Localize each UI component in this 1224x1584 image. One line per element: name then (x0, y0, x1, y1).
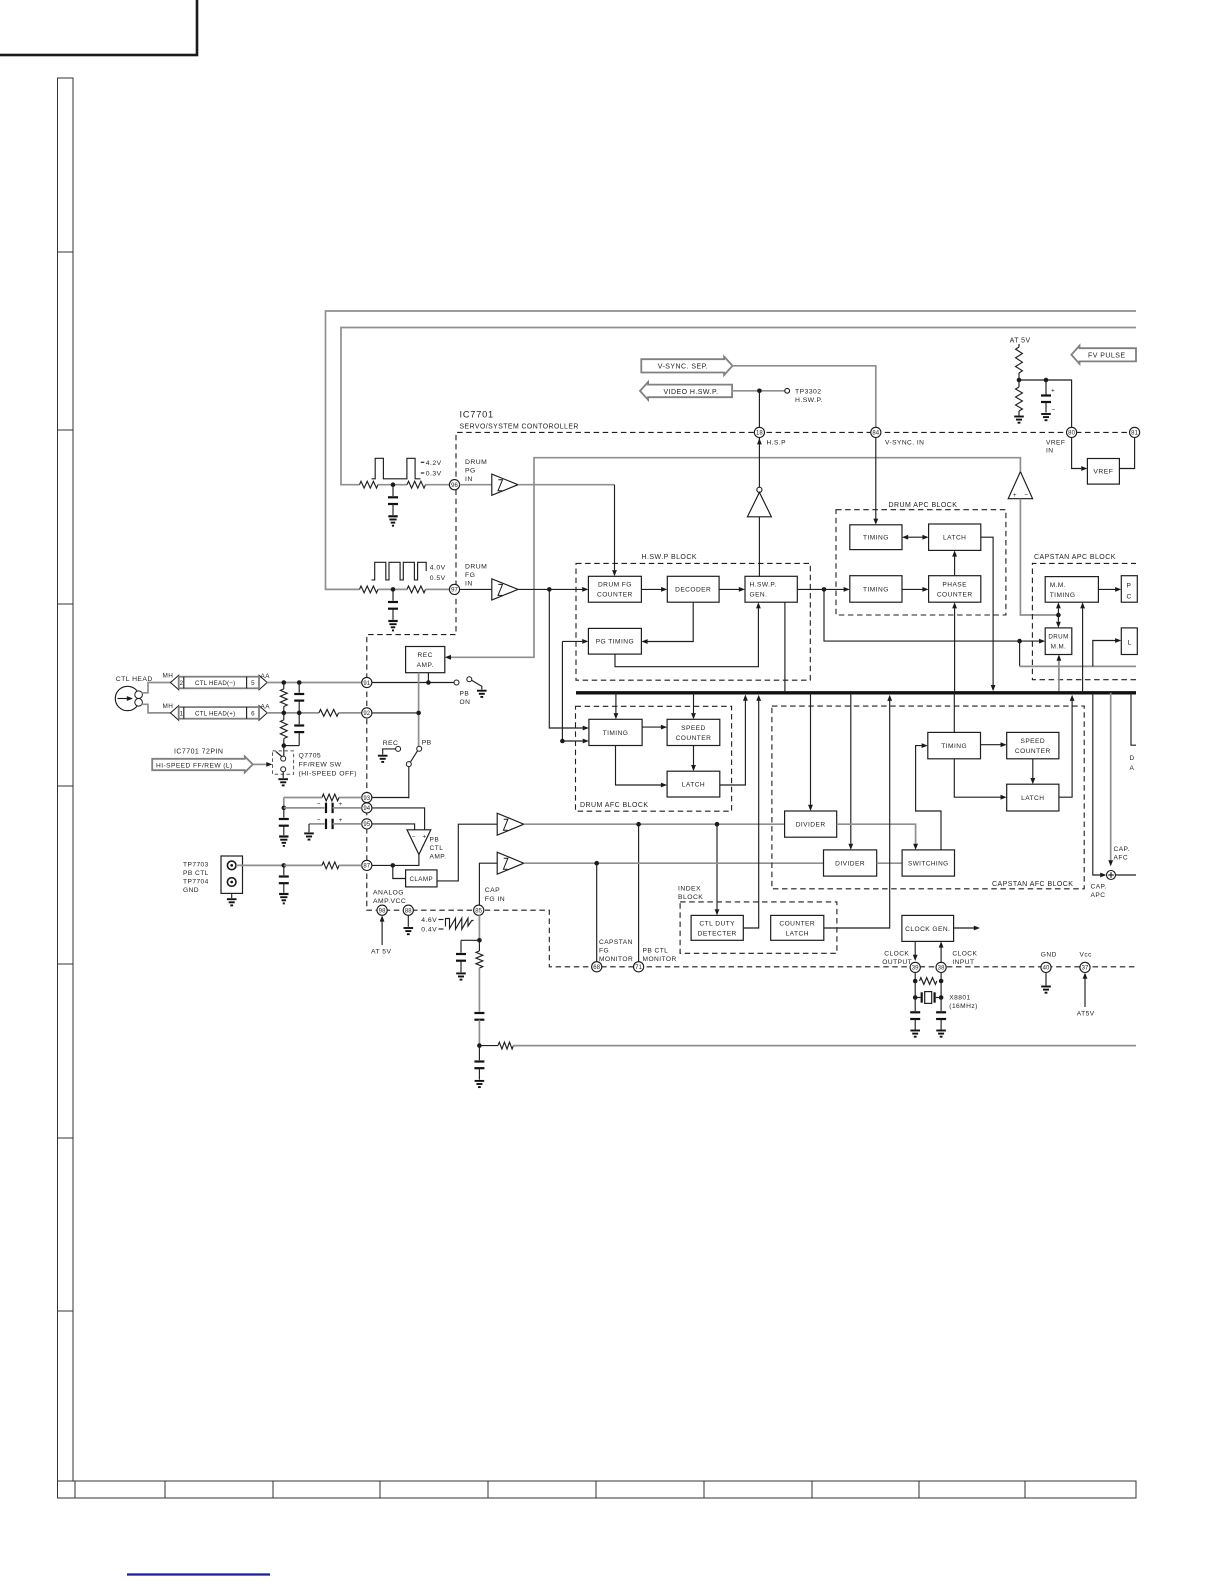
resistor below pin 85 (478, 940, 480, 951)
capacitor (electrolytic) at VREF IN (1045, 380, 1047, 395)
title block corner (top-left filled frame) (0, 0, 197, 55)
wire junction down to lower distribution line (1019, 641, 1021, 666)
ground under Q7705 (278, 778, 288, 780)
wire summing node output to right edge (1116, 874, 1137, 876)
svg-text:(HI-SPEED OFF): (HI-SPEED OFF) (299, 771, 357, 778)
pin 92 CTL HEAD(+) (362, 708, 372, 718)
svg-text:TIMING: TIMING (941, 743, 967, 750)
wire tap down to pin 68 (596, 863, 598, 962)
ground TP7704 (227, 898, 237, 900)
resistor to long wire (498, 1042, 513, 1049)
wire buffer out to DRUM FG COUNTER top (518, 484, 615, 486)
svg-text:0.4V: 0.4V (421, 926, 437, 933)
svg-text:+: + (423, 833, 427, 840)
svg-text:REC: REC (383, 740, 399, 747)
svg-text:CAP: CAP (485, 887, 500, 894)
svg-text:SPEED: SPEED (1020, 738, 1045, 745)
test point TP7703 circle (227, 861, 236, 870)
resistor R(top) at AT 5V (1018, 344, 1020, 347)
svg-text:(16MHz): (16MHz) (949, 1003, 977, 1010)
wire TIMING bottom to LATCH (capstan) (954, 759, 1001, 797)
svg-text:AFC: AFC (1114, 855, 1129, 862)
resistor R at drum FG in (left) (360, 586, 379, 593)
wire to pin 96 (426, 484, 450, 486)
svg-text:CAP.: CAP. (1114, 846, 1130, 853)
wire pin 94 to PB CTL AMP + (372, 808, 425, 830)
svg-text:2: 2 (180, 680, 184, 687)
capacitor under pin39 leg (914, 998, 916, 1012)
svg-text:MONITOR: MONITOR (599, 956, 633, 963)
svg-text:+: + (1013, 492, 1017, 499)
svg-text:CTL DUTY: CTL DUTY (699, 920, 735, 927)
op-amp PB CTL AMP (points down) (407, 830, 431, 855)
svg-text:84: 84 (872, 431, 879, 437)
svg-text:VIDEO H.SW.P.: VIDEO H.SW.P. (663, 389, 718, 396)
test point TP3302 open circle (785, 388, 790, 393)
wire H.SW.P GEN output to drum APC TIMING (797, 588, 844, 590)
svg-text:38: 38 (938, 966, 945, 972)
wire DECODER bottom to PG TIMING (648, 602, 694, 641)
resistor pin93 row (322, 794, 339, 801)
switch REC/PB armature and pivot (411, 751, 418, 762)
pin 40 GND (1041, 962, 1051, 972)
left margin ruler column with zone ticks (58, 78, 74, 1481)
block CLOCK GEN. (902, 915, 954, 941)
svg-text:18: 18 (756, 431, 763, 437)
svg-text:LATCH: LATCH (786, 930, 809, 937)
wire bus down to summing node top (CAP. AFC, gray) (1110, 693, 1112, 861)
svg-text:SERVO/SYSTEM CONTOROLLER: SERVO/SYSTEM CONTOROLLER (460, 424, 579, 431)
svg-text:LATCH: LATCH (943, 535, 966, 542)
net tag FV PULSE (left-pointing, clipped at right) (1071, 346, 1136, 364)
svg-text:93: 93 (363, 796, 370, 802)
wire CTL DUTY out to bus (743, 701, 758, 928)
junction M.M. feed (1056, 613, 1061, 618)
wire H.SW.P GEN down to bus (784, 602, 786, 691)
svg-text:L: L (1128, 640, 1132, 647)
connector tag 2 CTL HEAD(-) 5 (171, 675, 179, 690)
wire pin95 cap minus leg to ground (308, 824, 310, 832)
svg-text:IN: IN (1046, 448, 1054, 455)
svg-text:CTL HEAD(−): CTL HEAD(−) (195, 680, 235, 687)
junction AT5V divider (1017, 378, 1022, 383)
wire TIMING to SPEED COUNTER (drum AFC) (642, 726, 661, 728)
svg-text:INPUT: INPUT (952, 959, 974, 966)
svg-text:AMP.: AMP. (430, 854, 447, 861)
svg-text:68: 68 (593, 965, 600, 971)
wire TP row to resistor (284, 864, 322, 866)
pin 37 Vcc (1080, 962, 1090, 972)
svg-text:D: D (1130, 755, 1135, 762)
svg-text:DRUM AFC BLOCK: DRUM AFC BLOCK (580, 802, 649, 809)
svg-text:CLOCK: CLOCK (884, 951, 909, 958)
wire bus down to D/A line (right edge) (1131, 693, 1136, 745)
resistor R(bottom) to ground (1016, 387, 1023, 411)
wire pin 88 to ground (407, 915, 409, 926)
svg-text:87: 87 (363, 864, 370, 870)
svg-text:AMP.: AMP. (417, 662, 434, 669)
junction pin85 filter (477, 938, 482, 943)
svg-text:GEN.: GEN. (750, 592, 768, 599)
block COUNTER LATCH (771, 915, 824, 940)
pin 88 (403, 905, 413, 915)
svg-text:98: 98 (379, 909, 386, 915)
wire PHASE COUNTER up to LATCH (954, 557, 956, 576)
resistor R at drum FG in (right) (407, 586, 426, 593)
svg-text:DIVIDER: DIVIDER (835, 860, 865, 867)
svg-text:FG IN: FG IN (485, 896, 505, 903)
junction at electrolytic cap (1044, 378, 1049, 383)
svg-text:AT 5V: AT 5V (1010, 338, 1031, 345)
svg-text:CAPSTAN: CAPSTAN (599, 939, 633, 946)
svg-text:TP7703: TP7703 (183, 862, 209, 869)
wire CAP FG buffer out (gray) to DIVIDER 2 (524, 862, 824, 864)
junction filter col1 top (282, 680, 287, 685)
svg-text:Q7705: Q7705 (299, 753, 322, 760)
capacitor col2 (lower) (298, 713, 300, 724)
block TIMING 2 (drum APC) (850, 576, 902, 603)
junction at FF/REW switch (282, 743, 287, 748)
wire CLOCK GEN to pin 39 (clock output) (914, 941, 916, 956)
block DIVIDER 1 (785, 811, 837, 837)
svg-text:MH: MH (163, 703, 174, 710)
block boundary H.SW.P BLOCK (dashed) (576, 563, 810, 680)
junction drum FG filter (391, 587, 396, 592)
connector tag 1 CTL HEAD(+) 6 (171, 706, 179, 721)
wire REC AMP bottom-left output down to PB contact (418, 673, 420, 747)
wire PG TIMING to H.SW.P GEN bottom (615, 608, 758, 666)
svg-text:PG TIMING: PG TIMING (596, 639, 634, 646)
wire AT5V up to pin 37 (1084, 979, 1086, 1008)
wire COUNTER LATCH to bus (824, 701, 890, 928)
capacitor to ground (drum FG) (392, 589, 394, 600)
side capacitor branch (461, 939, 479, 941)
svg-text:TP3302: TP3302 (795, 389, 822, 396)
svg-text:TP7704: TP7704 (183, 879, 209, 886)
block TIMING (drum APC) (850, 525, 902, 550)
svg-text:DRUM: DRUM (465, 564, 487, 571)
ground under pin39 leg (910, 1030, 920, 1032)
wire CLAMP output loop to PB buffer (437, 824, 497, 881)
buffer U (drum PG) (492, 474, 518, 495)
wire pin80 to VREF block (1072, 438, 1081, 469)
net tag VIDEO H.SW.P. (left-pointing) (640, 382, 732, 400)
wire bus down to summing node (CAP APC) (1093, 693, 1101, 875)
wire pin 92 to junction (372, 712, 419, 714)
junction REC AMP bottom tap (pin91) (426, 680, 431, 685)
op-amp comparator (+ -) for REC AMP drive (1008, 472, 1032, 499)
summing node circle with plus (1107, 871, 1116, 880)
capacitor under pin38 leg (940, 998, 942, 1012)
svg-text:FG: FG (465, 572, 475, 579)
svg-text:94: 94 (363, 806, 370, 812)
buffer U (drum FG) (492, 579, 518, 600)
svg-text:−: − (1052, 407, 1056, 414)
wire TIMING to SPEED COUNTER (capstan) (981, 744, 1001, 746)
pin 80 VREF IN (1067, 427, 1077, 437)
svg-text:IN: IN (465, 581, 473, 588)
wire pin 91 to PB ON switch (372, 682, 454, 684)
svg-text:PB: PB (422, 740, 432, 747)
svg-text:PB CTL: PB CTL (183, 870, 209, 877)
resistor R at drum PG in (left) (360, 481, 379, 488)
junction drum PG filter (391, 482, 396, 487)
block VREF (1087, 459, 1119, 485)
waveform: drum FG pulses 4.0V/0.5V (372, 562, 427, 580)
wire PB CTL AMP output to pin 87 row (393, 855, 419, 866)
wire: TP3302 junction down to pin 18 (758, 391, 760, 427)
wire tap down to pin 71 (638, 824, 640, 962)
pin 81 (VREF return) (1130, 427, 1140, 437)
wire bus down to TIMING (capstan AFC) (953, 693, 955, 733)
pin 97 DRUM FG IN (449, 584, 459, 594)
junction filter col2 top (297, 680, 302, 685)
pin 87 PB CTL (362, 860, 372, 870)
ground under divider resistor (1014, 416, 1024, 418)
svg-text:4.6V: 4.6V (421, 917, 437, 924)
pin 95 (362, 819, 372, 829)
wire comparator bottom to M.M. junction (1020, 499, 1058, 615)
ground under pin38 leg (936, 1030, 946, 1032)
wire CAP FG pin to buffer (479, 863, 497, 905)
wire TIMING-LATCH bidirectional (908, 536, 922, 538)
svg-text:FV PULSE: FV PULSE (1088, 353, 1125, 360)
wire SPEED COUNTER down to LATCH (capstan) (1032, 759, 1034, 778)
svg-text:DIVIDER: DIVIDER (796, 822, 826, 829)
wire drum APC timing tap to DRUM M.M. (824, 589, 1039, 641)
wire head lower to connector (142, 704, 172, 713)
wire pin 96 to buffer (460, 484, 492, 486)
junction at TIMING lower feed (560, 739, 565, 744)
svg-text:−: − (317, 817, 321, 824)
svg-text:ON: ON (460, 699, 471, 706)
svg-text:4.0V: 4.0V (430, 564, 446, 571)
block TIMING (capstan AFC) (928, 732, 981, 758)
switch contacts Q7705 (283, 746, 285, 756)
wire bus down to DIVIDER 1 (810, 693, 812, 805)
junction filter col1 mid (282, 711, 287, 716)
wire TIMING bottom to LATCH (drum AFC) (616, 746, 662, 786)
svg-text:LATCH: LATCH (682, 782, 705, 789)
wire: v-sync sep to pin 84 (733, 366, 876, 427)
ground under electrolytic cap (1041, 413, 1051, 415)
wire PG TIMING / TIMING feed stub (581, 640, 583, 642)
svg-text:DETECTER: DETECTER (698, 930, 737, 937)
svg-text:COUNTER: COUNTER (676, 735, 712, 742)
wire lower distribution line to right edge (1020, 665, 1136, 667)
capacitor to ground (drum PG) (392, 485, 394, 496)
net tag HI-SPEED FF/REW (L) (152, 756, 253, 772)
svg-text:H.SW.P.: H.SW.P. (795, 397, 823, 404)
svg-text:91: 91 (363, 681, 370, 687)
test point TP7704 circle (227, 878, 236, 887)
bus line (thick) (576, 691, 1136, 694)
svg-text:INDEX: INDEX (678, 885, 701, 892)
block DECODER (667, 576, 719, 602)
svg-text:COUNTER: COUNTER (597, 592, 633, 599)
wire VREF to pin 81 (1119, 438, 1134, 469)
wire pin38 down (940, 973, 942, 998)
ground (drum PG filter) (388, 515, 397, 517)
junction H.SW.P GEN output branch (822, 587, 827, 592)
wire SWITCHING top loop to TIMING (capstan) (916, 746, 941, 850)
junction PB CTL monitor tap (636, 822, 641, 827)
pin 68 CAPSTAN FG MONITOR (592, 962, 602, 972)
junction crystal right (939, 995, 944, 1000)
block SPEED COUNTER (capstan AFC) (1007, 732, 1059, 758)
wire long distribution line (gray) (513, 1045, 1136, 1047)
capacitor col2 (upper) (298, 683, 300, 693)
wire junction to M.M. TIMING bottom (1057, 608, 1059, 615)
junction TP row filter (282, 863, 287, 868)
pin 91 CTL HEAD(-) (362, 677, 372, 687)
pin 71 PB CTL MONITOR (634, 962, 644, 972)
buffer U (CAP FG) (497, 852, 524, 874)
resistor across crystal (920, 978, 937, 985)
svg-text:97: 97 (451, 588, 458, 594)
inverter triangle (points up) (747, 492, 771, 516)
block PG TIMING (588, 628, 641, 654)
wire resistor to pin 87 (339, 864, 362, 866)
IC7701 package boundary (dashed) (367, 432, 1136, 966)
svg-text:GND: GND (183, 887, 199, 894)
block DRUM FG COUNTER (588, 576, 641, 602)
svg-text:P: P (1127, 583, 1132, 590)
wire (378, 588, 407, 590)
wire DRUM FG COUNTER to DECODER (641, 588, 661, 590)
svg-text:CTL HEAD(+): CTL HEAD(+) (195, 711, 235, 718)
svg-text:PB: PB (430, 837, 440, 844)
wire tap down to CTL DUTY DETECTER (716, 824, 718, 909)
block CLAMP (406, 870, 437, 887)
wire distribution up into L block (1093, 641, 1116, 667)
junction filter col2 mid (297, 711, 302, 716)
svg-text:GND: GND (1041, 952, 1057, 959)
svg-text:96: 96 (451, 483, 458, 489)
svg-text:85: 85 (475, 909, 482, 915)
wire (378, 484, 407, 486)
block LATCH (drum APC) (929, 524, 981, 550)
pin 18 H.S.P (754, 427, 764, 437)
svg-text:88: 88 (405, 909, 412, 915)
svg-text:Vcc: Vcc (1080, 952, 1093, 959)
pin 38 CLOCK INPUT (936, 962, 946, 972)
resistor pin 87 row (322, 862, 339, 869)
wire junction into CLAMP (393, 865, 406, 878)
capacitor to ground (pin93/94 filter) (283, 808, 285, 818)
svg-text:AT 5V: AT 5V (371, 949, 392, 956)
test point box (221, 856, 243, 893)
svg-text:−: − (317, 801, 321, 808)
pin 98 ANALOG AMP VCC (377, 905, 387, 915)
CTL head symbol (circle with gap circles and arrow) (115, 686, 139, 710)
block LATCH (drum AFC) (667, 771, 720, 797)
block M.M. TIMING (1045, 577, 1098, 603)
svg-text:A: A (1130, 765, 1135, 772)
waveform: capstan FG sawtooth (446, 918, 474, 929)
switch PB ON contacts (454, 680, 459, 685)
ground (pin93/94 filter) (279, 835, 288, 837)
ground (pin95 cap) (304, 832, 314, 834)
svg-text:92: 92 (363, 711, 370, 717)
svg-text:COUNTER: COUNTER (1015, 748, 1051, 755)
svg-text:CAP.: CAP. (1091, 884, 1107, 891)
svg-text:+: + (339, 801, 343, 808)
wire TP7704 to ground (231, 893, 233, 898)
svg-text:40: 40 (1043, 966, 1050, 972)
wire AT 5V arrow up to pin 98 (381, 921, 383, 945)
wire pin 97 to buffer (460, 588, 492, 590)
svg-text:AT5V: AT5V (1077, 1011, 1095, 1018)
wire ctl head(+) row (267, 712, 319, 714)
capacitor in pin85 chain (474, 1012, 484, 1014)
wire TIMING2 to PHASE COUNTER (902, 588, 923, 590)
block L (clipped at right edge) (1121, 628, 1137, 655)
svg-text:M.M.: M.M. (1050, 582, 1066, 589)
junction long wire (477, 1043, 482, 1048)
wire SPEED COUNTER down to LATCH (drum AFC) (693, 746, 695, 766)
waveform: drum PG pulses 4.2V/0.3V (372, 458, 421, 479)
svg-text:SPEED: SPEED (681, 725, 706, 732)
svg-text:DRUM APC BLOCK: DRUM APC BLOCK (889, 502, 958, 509)
junction pin94 row left (282, 806, 287, 811)
svg-text:TIMING: TIMING (863, 535, 889, 542)
wire inverter to H.SW.P GEN top (758, 517, 760, 577)
wire divider junction to VREF IN pin (1019, 380, 1072, 427)
block SPEED COUNTER (drum AFC) (667, 719, 720, 745)
svg-text:V-SYNC. SEP.: V-SYNC. SEP. (658, 364, 708, 371)
svg-text:VREF: VREF (1046, 440, 1065, 447)
ground (side capacitor) (456, 972, 466, 974)
svg-text:REC: REC (418, 652, 433, 659)
block boundary DRUM AFC BLOCK (dashed) (576, 706, 732, 811)
wire LATCH(drum APC) to bus (arrow down) (981, 537, 993, 685)
electrolytic capacitor pin94 row (284, 807, 325, 809)
svg-text:IC7701: IC7701 (460, 410, 494, 420)
wire resistor to pin 92 (339, 712, 362, 714)
resistor R at drum PG in (right) (407, 481, 426, 488)
ground (pin85 chain) (475, 1080, 485, 1082)
svg-text:4.2V: 4.2V (426, 460, 442, 467)
svg-text:H.S.P: H.S.P (767, 440, 787, 447)
ground (TP row filter) (279, 893, 288, 895)
svg-text:AA: AA (261, 704, 271, 711)
svg-text:AMP.VCC: AMP.VCC (373, 898, 406, 905)
wire pin 93 to switch common (372, 797, 409, 799)
svg-text:H.SW.P.: H.SW.P. (750, 582, 777, 589)
svg-text:95: 95 (363, 822, 370, 828)
wire: video h.sw.p to TP3302 (732, 390, 785, 392)
svg-text:PHASE: PHASE (942, 581, 967, 588)
wire ctl head(-) to pin 91 (267, 682, 362, 684)
svg-text:PB CTL: PB CTL (643, 948, 669, 955)
svg-text:C: C (1127, 594, 1132, 601)
svg-text:V-SYNC. IN: V-SYNC. IN (885, 440, 924, 447)
block REC AMP. (406, 647, 445, 673)
svg-text:37: 37 (1082, 966, 1089, 972)
svg-text:H.SW.P BLOCK: H.SW.P BLOCK (642, 554, 697, 561)
buffer U (PB CTL) (497, 813, 524, 835)
svg-text:6: 6 (251, 711, 255, 718)
wire DIVIDER2 out to SWITCHING (877, 862, 902, 864)
svg-text:CLOCK: CLOCK (952, 951, 977, 958)
svg-text:BLOCK: BLOCK (678, 894, 703, 901)
svg-text:CLOCK GEN.: CLOCK GEN. (905, 926, 950, 933)
svg-text:IC7701 72PIN: IC7701 72PIN (174, 749, 223, 756)
block CTL DUTY DETECTER (691, 915, 743, 940)
svg-text:−: − (1024, 492, 1028, 499)
wire pin 85 down (gray) (478, 915, 480, 940)
